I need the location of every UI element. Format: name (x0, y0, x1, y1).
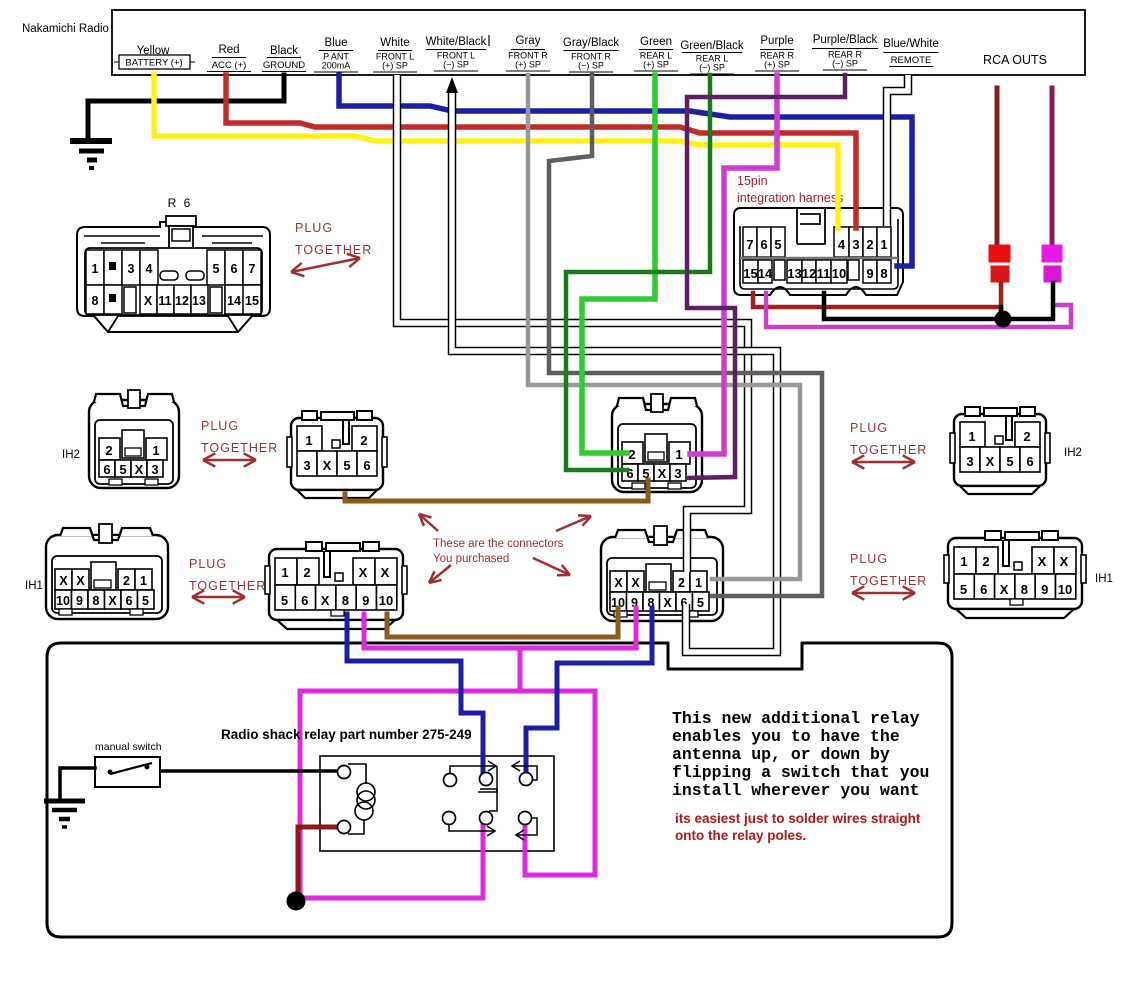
svg-text:1: 1 (695, 576, 702, 590)
svg-text:X: X (614, 576, 623, 590)
wire purple REAR R (+) magenta (690, 75, 777, 454)
svg-text:This new additional relay: This new additional relay (672, 709, 920, 728)
svg-text:10: 10 (832, 266, 846, 281)
svg-text:(−) SP: (−) SP (699, 63, 725, 73)
svg-text:Blue/White: Blue/White (883, 38, 939, 50)
svg-text:2: 2 (105, 443, 112, 458)
wire dark blue left IH1 pin8 to relay (347, 614, 483, 774)
svg-text:5: 5 (343, 458, 350, 473)
svg-text:1: 1 (152, 443, 159, 458)
svg-text:(+) SP: (+) SP (764, 60, 790, 70)
svg-text:5: 5 (1006, 454, 1013, 469)
svg-text:2: 2 (360, 433, 367, 448)
connector IH1 mid male (265, 542, 407, 629)
svg-text:5: 5 (697, 596, 704, 610)
svg-text:3: 3 (674, 466, 681, 481)
svg-text:X: X (76, 574, 85, 588)
svg-text:6: 6 (231, 262, 238, 276)
svg-text:2: 2 (123, 574, 130, 588)
svg-text:10: 10 (1058, 582, 1072, 597)
svg-text:15: 15 (743, 266, 757, 281)
svg-text:5: 5 (119, 462, 126, 477)
svg-text:1: 1 (960, 554, 967, 569)
connector IH2 left female (89, 390, 179, 488)
svg-text:4: 4 (146, 262, 153, 276)
svg-text:(−) SP: (−) SP (832, 59, 858, 69)
svg-text:manual switch: manual switch (95, 741, 162, 753)
Nakamichi radio head unit bar (112, 10, 1085, 75)
svg-text:X: X (631, 576, 640, 590)
wire magenta RCA to pin 14 (766, 293, 1071, 327)
svg-text:X: X (1038, 554, 1047, 569)
wire RCA right dark magenta (1050, 88, 1055, 245)
svg-text:X: X (1000, 582, 1009, 597)
junction dot relay (287, 892, 306, 911)
svg-text:14: 14 (758, 266, 773, 281)
svg-text:These are the connectors: These are the connectors (433, 538, 564, 550)
svg-text:Black: Black (270, 45, 298, 57)
svg-text:TOGETHER: TOGETHER (850, 443, 927, 457)
connector IH2 right female (612, 394, 702, 492)
svg-text:X: X (1060, 554, 1069, 569)
wire white/black FRONT L (-) SP (452, 92, 777, 652)
BATTERY (+) boxed label (119, 55, 190, 69)
svg-text:X: X (321, 593, 330, 608)
wire brown IH1 connectors link (387, 608, 618, 637)
svg-text:X: X (658, 466, 667, 481)
wire yellow BATTERY (154, 75, 838, 228)
svg-text:TOGETHER: TOGETHER (295, 243, 372, 257)
svg-text:Radio shack relay part number: Radio shack relay part number 275-249 (221, 727, 472, 742)
svg-text:X: X (381, 565, 390, 580)
connector R6 (77, 196, 270, 332)
svg-text:11: 11 (158, 294, 171, 308)
wire gray/black FRONT R (-) (549, 75, 822, 596)
svg-text:7: 7 (249, 262, 256, 276)
svg-text:6: 6 (760, 237, 767, 252)
svg-text:X: X (59, 574, 68, 588)
svg-text:11: 11 (817, 266, 831, 281)
svg-text:15: 15 (245, 294, 259, 308)
svg-text:1: 1 (140, 574, 147, 588)
svg-text:8: 8 (93, 594, 100, 608)
svg-text:PLUG: PLUG (189, 557, 227, 571)
svg-text:200mA: 200mA (322, 61, 351, 71)
wire black pin 11 to RCA junction (824, 283, 1053, 319)
wire white FRONT L (+) SP (397, 75, 748, 572)
svg-text:7: 7 (746, 237, 753, 252)
svg-text:13: 13 (192, 294, 206, 308)
svg-text:1: 1 (281, 565, 288, 580)
svg-text:6: 6 (301, 593, 308, 608)
svg-text:8: 8 (1021, 582, 1028, 597)
svg-text:Purple: Purple (760, 35, 793, 47)
svg-text:(+) SP: (+) SP (515, 60, 541, 70)
svg-text:its easiest just to solder wir: its easiest just to solder wires straigh… (675, 811, 921, 826)
svg-text:White/Black: White/Black (426, 36, 487, 48)
wire switch to relay coil (160, 769, 337, 773)
svg-text:3: 3 (303, 458, 310, 473)
svg-text:3: 3 (966, 454, 973, 469)
connector IH1 left female (46, 524, 168, 619)
svg-text:X: X (986, 454, 995, 469)
svg-text:PLUG: PLUG (850, 421, 888, 435)
wire magenta relay loop left (300, 648, 520, 898)
svg-text:5: 5 (774, 237, 781, 252)
arrowhead at top of white/black wire (446, 77, 458, 93)
svg-text:4: 4 (838, 237, 846, 252)
wire brown IH2 connectors link (345, 480, 648, 501)
svg-text:IH1: IH1 (25, 580, 43, 592)
wire dark blue right IH1 pin8 to relay (526, 608, 652, 774)
svg-text:5: 5 (142, 594, 149, 608)
svg-text:8: 8 (92, 294, 99, 308)
svg-text:3: 3 (852, 237, 859, 252)
connector IH2 far right male (950, 407, 1050, 494)
svg-text:You purchased: You purchased (433, 553, 509, 565)
svg-text:6: 6 (980, 582, 987, 597)
svg-text:1: 1 (305, 433, 312, 448)
junction dot (995, 311, 1012, 328)
wire blue/white REMOTE (887, 75, 908, 226)
svg-text:integration harness: integration harness (737, 191, 843, 205)
wire magenta relay loop right (520, 691, 595, 875)
svg-text:15pin: 15pin (737, 174, 768, 188)
svg-text:2: 2 (866, 237, 873, 252)
svg-text:Blue: Blue (324, 37, 347, 49)
svg-text:X: X (135, 462, 144, 477)
wire green/black REAR L (-) (566, 75, 710, 470)
relay coil terminals (338, 766, 351, 779)
svg-text:6: 6 (363, 458, 370, 473)
connector IH2 mid male (287, 411, 387, 498)
svg-text:Green: Green (640, 36, 672, 48)
svg-text:1: 1 (675, 447, 682, 462)
wire magenta IH1 pin9 link (364, 608, 636, 648)
svg-text:flipping a switch that you: flipping a switch that you (672, 763, 929, 782)
svg-text:9: 9 (866, 266, 873, 281)
svg-text:Purple/Black: Purple/Black (813, 34, 878, 46)
wire RCA left dark red (995, 88, 1000, 245)
svg-text:antenna up, or down by: antenna up, or down by (672, 745, 890, 764)
svg-text:Red: Red (218, 44, 239, 56)
svg-text:PLUG: PLUG (201, 419, 239, 433)
connector IH1 far right male (944, 531, 1086, 618)
wire dark red RCA to pin 15 (753, 293, 1001, 307)
relay box (320, 756, 554, 851)
relay contact terminals (444, 774, 457, 787)
svg-text:12: 12 (175, 294, 189, 308)
svg-text:5: 5 (213, 262, 220, 276)
svg-text:PLUG: PLUG (850, 552, 888, 566)
svg-text:6: 6 (126, 594, 133, 608)
svg-text:IH1: IH1 (1095, 573, 1113, 585)
svg-text:8: 8 (880, 266, 887, 281)
svg-text:(−) SP: (−) SP (443, 60, 469, 70)
svg-text:TOGETHER: TOGETHER (850, 574, 927, 588)
relay contact staples and arrows (450, 766, 497, 792)
svg-text:5: 5 (281, 593, 288, 608)
svg-text:13: 13 (787, 266, 801, 281)
RCA plug red (989, 245, 1010, 262)
svg-text:10: 10 (56, 594, 70, 608)
svg-text:PLUG: PLUG (295, 221, 333, 235)
relay explanation box outline (47, 643, 952, 937)
svg-text:IH2: IH2 (1064, 447, 1082, 459)
svg-text:14: 14 (227, 294, 241, 308)
RCA plug magenta (1042, 245, 1062, 262)
svg-text:R 6: R 6 (168, 196, 193, 210)
connector IH1 right female (601, 526, 723, 621)
svg-text:6: 6 (103, 462, 110, 477)
svg-text:(+) SP: (+) SP (643, 60, 669, 70)
svg-text:X: X (663, 596, 672, 610)
svg-text:Green/Black: Green/Black (680, 40, 744, 52)
svg-text:IH2: IH2 (62, 449, 80, 461)
svg-text:5: 5 (960, 582, 967, 597)
svg-text:2: 2 (303, 565, 310, 580)
svg-text:3: 3 (128, 262, 135, 276)
wire purple/black REAR R (-) (687, 75, 845, 478)
wire dark red relay coil to junction (298, 827, 337, 898)
wire green REAR L (+) (582, 75, 655, 453)
svg-text:Gray/Black: Gray/Black (563, 37, 619, 49)
svg-text:1: 1 (880, 237, 887, 252)
svg-text:12: 12 (802, 266, 816, 281)
svg-text:2: 2 (1023, 429, 1030, 444)
svg-text:White: White (380, 37, 409, 49)
svg-text:onto the relay poles.: onto the relay poles. (675, 828, 806, 843)
15 pin integration harness connector (734, 208, 903, 295)
svg-text:3: 3 (151, 462, 158, 477)
svg-text:(−) SP: (−) SP (578, 61, 604, 71)
wire black ground from head unit (88, 75, 284, 140)
svg-text:REMOTE: REMOTE (891, 55, 932, 66)
svg-text:X: X (108, 594, 117, 608)
svg-text:1: 1 (92, 262, 99, 276)
svg-text:Nakamichi Radio: Nakamichi Radio (22, 23, 109, 35)
svg-text:10: 10 (379, 593, 393, 608)
relay coil (348, 764, 366, 834)
svg-text:BATTERY (+): BATTERY (+) (125, 58, 182, 69)
svg-text:ACC (+): ACC (+) (212, 60, 247, 71)
svg-text:X: X (144, 294, 153, 308)
svg-text:2: 2 (678, 576, 685, 590)
svg-text:6: 6 (1026, 454, 1033, 469)
svg-text:X: X (359, 565, 368, 580)
svg-text:1: 1 (968, 429, 975, 444)
wire blue P.ANT (339, 75, 912, 266)
svg-text:TOGETHER: TOGETHER (201, 441, 278, 455)
svg-text:enables you to have the: enables you to have the (672, 727, 900, 746)
svg-text:2: 2 (982, 554, 989, 569)
ground symbol top left (70, 138, 112, 144)
ground symbol bottom (44, 799, 85, 804)
svg-text:GROUND: GROUND (263, 60, 305, 71)
svg-text:8: 8 (342, 593, 349, 608)
wire gray FRONT R (+) (528, 75, 800, 579)
svg-text:9: 9 (1041, 582, 1048, 597)
svg-text:9: 9 (362, 593, 369, 608)
svg-text:Gray: Gray (516, 35, 541, 47)
wire red ACC (226, 75, 856, 228)
wire switch to ground (60, 768, 95, 800)
svg-text:install wherever you want: install wherever you want (672, 781, 920, 800)
text cursor artifact after White/Black (488, 35, 490, 46)
svg-text:RCA OUTS: RCA OUTS (983, 53, 1047, 67)
svg-text:9: 9 (76, 594, 83, 608)
svg-text:(+) SP: (+) SP (382, 61, 408, 71)
svg-text:X: X (323, 458, 332, 473)
